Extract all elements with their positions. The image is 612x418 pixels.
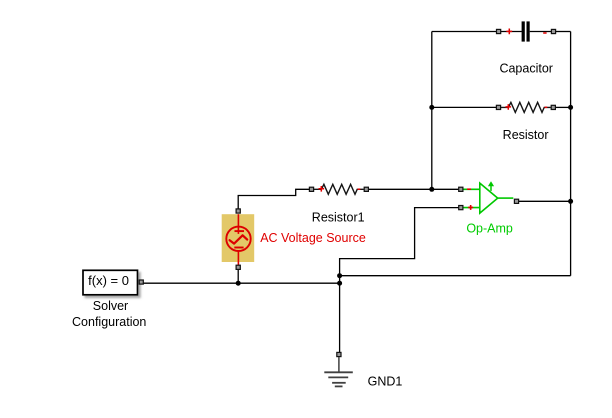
resistor Resistor <box>501 102 551 112</box>
solver configuration port <box>139 280 143 284</box>
wire Resistor1 right port to op-amp inverting input <box>369 188 459 190</box>
wire Capacitor right port to right rail <box>556 31 571 33</box>
svg-text:Configuration: Configuration <box>72 315 146 329</box>
op-amp inverting input port <box>459 187 463 191</box>
AC voltage source symbol <box>226 214 250 265</box>
op-amp U1 <box>463 183 513 213</box>
Resistor1 - polarity mark <box>358 188 361 190</box>
ground GND1 port <box>337 352 341 356</box>
svg-text:Op-Amp: Op-Amp <box>466 222 513 236</box>
svg-text:Solver: Solver <box>93 299 128 313</box>
svg-text:Capacitor: Capacitor <box>499 62 553 76</box>
svg-text:f(x) = 0: f(x) = 0 <box>88 273 129 288</box>
svg-text:AC Voltage Source: AC Voltage Source <box>260 231 366 245</box>
AC voltage source bottom port <box>236 265 240 269</box>
junction at AC source bottom / bottom net <box>236 281 241 286</box>
wire AC source bottom port down to bottom net <box>237 270 239 284</box>
junction at right rail / op-amp output wire <box>568 199 573 204</box>
op-amp output port <box>514 199 518 203</box>
wire right feedback rail (op-amp output node) <box>570 32 572 276</box>
capacitor Capacitor <box>501 21 551 41</box>
wire Resistor right port to right rail <box>556 106 571 108</box>
Capacitor - polarity mark <box>543 32 546 34</box>
wire Solver Configuration port to ground node <box>143 282 339 284</box>
ground GND1 symbol <box>324 357 353 386</box>
op-amp non-inverting input port <box>459 206 463 210</box>
junction at left rail / op-amp inverting input wire <box>429 187 434 192</box>
resistor Resistor1 <box>314 184 364 194</box>
junction at ground node / bottom net <box>337 281 342 286</box>
Resistor + polarity mark <box>506 104 512 110</box>
Capacitor right port <box>551 29 555 33</box>
Resistor1 + polarity mark <box>319 186 325 192</box>
Resistor1 right port <box>364 187 368 191</box>
svg-text:Resistor: Resistor <box>503 128 549 142</box>
Resistor right port <box>551 105 555 109</box>
wire left rail to Resistor left port <box>432 106 496 108</box>
junction at left rail / Resistor left wire <box>429 105 434 110</box>
wire left feedback rail (node between Resistor1, Capacitor, Resistor, op-amp inverting input) <box>431 32 433 190</box>
Capacitor left port <box>497 29 501 33</box>
wire AC source top port to Resistor1 left port <box>238 189 309 209</box>
junction at ground node / feedback bottom return <box>337 273 342 278</box>
AC voltage source top port <box>236 209 240 213</box>
wire top row to Capacitor left port <box>432 31 497 33</box>
op-amp inverting input - mark <box>467 188 471 190</box>
Resistor - polarity mark <box>545 106 548 108</box>
Capacitor + polarity mark <box>506 29 512 35</box>
op-amp power arrow <box>488 181 494 191</box>
Resistor1 left port <box>309 187 313 191</box>
svg-text:GND1: GND1 <box>368 374 403 388</box>
wire op-amp output port to right rail <box>519 200 571 202</box>
op-amp non-inverting input + mark <box>468 205 473 210</box>
AC voltage source highlight box <box>222 214 255 262</box>
solver configuration block <box>83 270 138 295</box>
wire op-amp non-inverting input down to ground node <box>340 208 459 353</box>
Resistor left port <box>496 105 500 109</box>
wire feedback bottom return to ground node <box>340 275 571 277</box>
junction at right rail / Resistor right wire <box>568 105 573 110</box>
svg-text:Resistor1: Resistor1 <box>312 210 365 224</box>
